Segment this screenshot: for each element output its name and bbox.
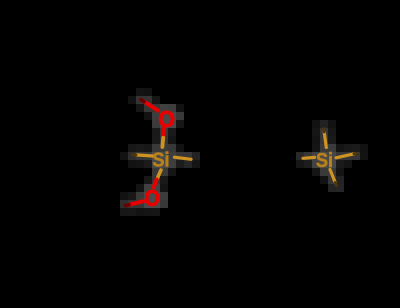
svg-text:Si: Si — [152, 149, 169, 172]
wire Si1-ring gold half — [175, 157, 192, 159]
wire O1-Si1 red half — [161, 128, 166, 138]
wire Si2-CH3 down — [330, 170, 335, 183]
wire O2-CH3 red half — [129, 201, 144, 205]
wire O1-CH3 red half — [144, 102, 158, 111]
wire Si1-O2 red half — [154, 180, 157, 188]
svg-text:O: O — [158, 106, 175, 132]
wire Si1-CH3 left — [136, 155, 153, 156]
svg-text:O: O — [145, 185, 160, 211]
wire O1-Si1 gold half — [160, 138, 165, 147]
wire Si1-O2 gold half — [157, 170, 161, 179]
wire ring-Si2 gold half — [303, 156, 315, 160]
svg-text:Si: Si — [316, 149, 333, 172]
wire Si2-CH3 right — [336, 154, 354, 158]
wire Si2-CH3 up — [324, 132, 326, 148]
